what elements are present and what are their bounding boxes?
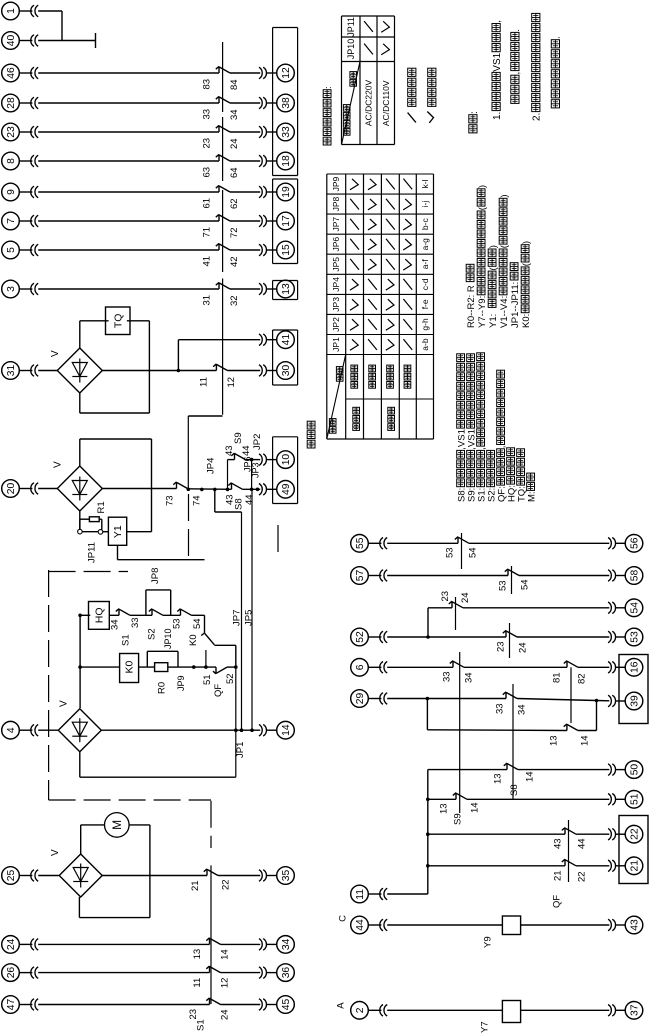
svg-text:R1: R1 (96, 501, 107, 513)
terminal 34 (277, 936, 295, 954)
svg-text:81: 81 (551, 672, 562, 683)
terminal 41 (277, 331, 295, 349)
svg-text:24: 24 (460, 592, 471, 603)
terminal 18 (277, 152, 295, 170)
terminal 9 (2, 183, 20, 201)
terminal 10 (277, 451, 295, 469)
wire (38, 972, 209, 974)
svg-text:11: 11 (192, 978, 203, 988)
svg-text:1.: 1. (492, 112, 503, 120)
svg-text:72: 72 (229, 227, 240, 238)
closing coil HQ (89, 602, 110, 630)
svg-text:JP3: JP3 (331, 297, 341, 312)
wire Y1 bottom (117, 545, 119, 559)
terminal 52 (351, 628, 369, 646)
svg-text:JP6: JP6 (331, 237, 341, 252)
svg-text:50: 50 (630, 764, 641, 776)
S1 switch contact 13/14 (209, 938, 211, 945)
svg-text:6: 6 (355, 664, 366, 670)
svg-text:JP10: JP10 (163, 628, 173, 649)
svg-text:C: C (337, 915, 348, 922)
terminal 37 (625, 1002, 643, 1020)
switch linkage (222, 117, 224, 181)
svg-text:S2: S2 (146, 628, 157, 640)
K0 anti-pumping relay contact 53/54 (180, 609, 182, 616)
terminal 43 (625, 916, 643, 934)
svg-text:35: 35 (281, 869, 292, 881)
terminal 25 (2, 867, 20, 885)
terminal 56 (625, 535, 643, 553)
terminal 17 (277, 212, 295, 230)
svg-text:23: 23 (6, 126, 17, 138)
wire (109, 614, 119, 616)
svg-text:36: 36 (281, 967, 292, 979)
wire (38, 160, 219, 162)
wire (387, 1009, 502, 1011)
svg-text:53: 53 (497, 580, 508, 591)
diagonal header divider (342, 62, 361, 145)
divider (346, 398, 434, 400)
switch linkage (568, 820, 570, 882)
svg-text:JP7: JP7 (331, 217, 341, 232)
svg-text:34: 34 (516, 704, 527, 715)
svg-text:JP8: JP8 (331, 196, 341, 211)
S1 switch contact 11/12 (209, 966, 211, 973)
wire (177, 340, 179, 371)
svg-text:23: 23 (188, 1009, 199, 1020)
svg-text:JP4: JP4 (205, 458, 216, 474)
svg-text:): ) (477, 185, 488, 188)
svg-text:8: 8 (6, 158, 17, 164)
wire (576, 833, 609, 835)
svg-text:17: 17 (281, 215, 292, 227)
terminal 39 (625, 692, 643, 710)
wire (102, 370, 178, 372)
svg-text:52: 52 (355, 631, 366, 643)
wire (517, 699, 597, 701)
svg-text:10: 10 (281, 454, 292, 466)
svg-text:15: 15 (281, 244, 292, 256)
svg-text:24: 24 (6, 938, 17, 950)
wire (38, 220, 219, 222)
terminal 2 (351, 1002, 369, 1020)
motor loop wire (80, 825, 82, 855)
svg-text:M:: M: (526, 491, 537, 502)
switch linkage wire (512, 684, 514, 800)
svg-text:Y1:: Y1: (488, 314, 499, 328)
terminal 22 (625, 825, 643, 843)
wire (227, 666, 236, 668)
wire (38, 40, 95, 42)
wire (243, 488, 261, 490)
legend: slash means open (408, 113, 416, 123)
bridge rectifier V (TQ) (57, 348, 102, 393)
svg-text:JP8: JP8 (150, 568, 161, 584)
QF aux switch contact 23/24 (218, 125, 220, 132)
svg-text:JP7: JP7 (231, 610, 242, 626)
wire (178, 666, 216, 668)
terminal 40 (2, 32, 20, 50)
svg-text:63: 63 (201, 167, 212, 178)
svg-text:21: 21 (190, 880, 201, 891)
svg-text:.: . (511, 29, 522, 32)
svg-text:4: 4 (6, 727, 17, 733)
S8 aux switch contact 43/44 (231, 483, 233, 490)
svg-text:40: 40 (6, 34, 17, 46)
svg-text:K0:: K0: (521, 314, 532, 328)
svg-text:13: 13 (281, 283, 292, 295)
svg-text:37: 37 (630, 1004, 641, 1016)
switch linkage (222, 190, 224, 272)
wire (387, 575, 508, 577)
svg-text:31: 31 (201, 295, 212, 306)
wire (38, 943, 209, 945)
terminal 13 (277, 280, 295, 298)
wire (521, 1009, 610, 1011)
svg-text:12: 12 (226, 377, 237, 388)
stub terminator (95, 33, 97, 48)
svg-text:74: 74 (191, 495, 202, 506)
svg-text:3: 3 (6, 286, 17, 292)
svg-text:23: 23 (495, 641, 506, 652)
wire (518, 769, 609, 771)
wire riser rectifier4 top to row A (79, 615, 81, 708)
wire (469, 542, 609, 544)
svg-text:24: 24 (517, 642, 528, 653)
wire (38, 191, 219, 193)
svg-text::: : (469, 111, 480, 114)
wire (519, 575, 609, 577)
wire branch to terminal 54 (427, 608, 429, 637)
svg-text:33: 33 (441, 671, 452, 682)
wire (139, 666, 155, 668)
S1 contact 23/24 (451, 601, 453, 608)
svg-text:43: 43 (552, 838, 563, 849)
svg-text:12: 12 (281, 67, 292, 79)
svg-text:.: . (551, 36, 562, 39)
QF aux switch contact 41/42 (218, 243, 220, 250)
wire (578, 666, 609, 668)
wire (38, 729, 58, 731)
svg-text:a-b: a-b (420, 338, 430, 351)
wire (192, 614, 205, 616)
svg-text:30: 30 (281, 364, 292, 376)
cell wubisuo (369, 382, 376, 389)
S1 energy-storage switch contact 33/34 (118, 609, 120, 616)
wire (163, 614, 181, 616)
wire (79, 511, 81, 529)
wire (38, 875, 59, 877)
QF aux switch contact 83/84 (218, 66, 220, 73)
svg-text:34: 34 (110, 619, 121, 630)
wire (227, 370, 260, 372)
svg-text:QF: QF (551, 895, 562, 908)
TQ loop wire (79, 321, 81, 348)
wire (38, 288, 219, 290)
QF aux switch contact 33/34 (218, 96, 220, 103)
svg-text:52: 52 (225, 673, 236, 684)
svg-text:,: , (476, 447, 487, 450)
svg-text:S8: S8 (509, 784, 520, 796)
terminal 7 (2, 212, 20, 230)
overcurrent release Y9 (502, 916, 520, 935)
terminal 19 (277, 183, 295, 201)
svg-text::: : (323, 86, 334, 89)
svg-text:43: 43 (224, 445, 235, 456)
terminal 30 (277, 362, 295, 380)
drop from row A to row B via contact (204, 615, 206, 633)
svg-text:V: V (50, 849, 61, 856)
terminal 15 (277, 241, 295, 259)
svg-text:14: 14 (281, 724, 292, 736)
svg-text:22: 22 (220, 879, 231, 890)
svg-text:k-l: k-l (420, 179, 430, 188)
svg-text:S9: S9 (452, 813, 463, 825)
wire (230, 102, 260, 104)
wire bottom loop (79, 752, 81, 778)
svg-text:TQ: TQ (112, 314, 124, 329)
svg-text:): ) (521, 241, 532, 244)
svg-text:45: 45 (281, 998, 292, 1010)
terminal 26 (2, 964, 20, 982)
terminal 20 (2, 480, 20, 498)
svg-text:1: 1 (6, 8, 17, 14)
svg-text:26: 26 (6, 967, 17, 979)
S8 contact 53/54 (457, 537, 459, 544)
switch linkage (210, 865, 212, 1004)
wire (38, 10, 62, 12)
svg-text:2: 2 (355, 1007, 366, 1013)
terminal 54 (625, 599, 643, 617)
wire (387, 893, 428, 895)
wire (101, 729, 260, 731)
wire (38, 131, 219, 133)
terminal 11 (351, 885, 369, 903)
legend: check means connected (427, 112, 433, 123)
QF aux switch contact 71/72 (218, 214, 220, 221)
terminal 31 (2, 362, 20, 380)
svg-text:JP1: JP1 (235, 742, 246, 758)
wire (102, 875, 207, 877)
S2 aux switch contact (151, 609, 153, 616)
S8 contact 13/14 (506, 763, 508, 770)
svg-text:61: 61 (201, 198, 212, 209)
terminal 1 (2, 2, 20, 20)
locking coil Y1 (103, 531, 109, 533)
terminal 29 (351, 690, 369, 708)
cell wufangtiao (388, 424, 395, 431)
wire (387, 542, 458, 544)
corner lianxian (336, 375, 343, 382)
svg-text:JP9: JP9 (176, 675, 186, 691)
wire (38, 488, 57, 490)
svg-text:34: 34 (229, 109, 240, 120)
svg-text:22: 22 (576, 871, 587, 882)
terminal 47 (2, 996, 20, 1014)
terminal 38 (277, 94, 295, 112)
jumper JP8 loop (145, 590, 147, 615)
terminal 49 (277, 481, 295, 499)
cell daibisuo (351, 382, 358, 389)
wire (38, 72, 219, 74)
svg-text:33: 33 (130, 617, 141, 628)
terminal 8 (2, 152, 20, 170)
table: jumper configuration (326, 174, 328, 439)
notes shuoming (469, 125, 477, 133)
terminal 5 (2, 241, 20, 259)
svg-text:JP1--JP11:: JP1--JP11: (510, 282, 521, 328)
svg-text:84: 84 (229, 79, 240, 90)
svg-text:73: 73 (164, 495, 175, 506)
svg-text:51: 51 (202, 674, 213, 685)
svg-text:62: 62 (229, 198, 240, 209)
note line 4 (551, 100, 559, 108)
svg-text:38: 38 (281, 97, 292, 109)
terminal 21 (625, 857, 643, 875)
svg-text:,: , (511, 72, 522, 75)
svg-text:V: V (58, 700, 69, 707)
svg-text:JP11: JP11 (346, 17, 356, 37)
wire (387, 636, 506, 638)
svg-text:Y7: Y7 (479, 1021, 490, 1033)
svg-text:23: 23 (440, 591, 451, 602)
terminal strip rails (272, 28, 274, 176)
svg-text:32: 32 (229, 295, 240, 306)
svg-text:57: 57 (355, 569, 366, 581)
svg-text:54: 54 (467, 547, 478, 558)
svg-text:33: 33 (281, 126, 292, 138)
resistor R1 (79, 519, 81, 529)
svg-text:c-d: c-d (420, 278, 430, 290)
terminal 36 (277, 964, 295, 982)
wire row 51 (426, 798, 430, 802)
S9 contact 53/54 (507, 569, 509, 576)
svg-text:23: 23 (201, 138, 212, 149)
JP11 link terminals (78, 529, 83, 534)
svg-text:71: 71 (201, 227, 212, 238)
QF aux contact 33/34 (452, 661, 454, 668)
cell daifangtiao (353, 424, 360, 431)
svg-text:53: 53 (171, 618, 182, 629)
wire row 22 (426, 832, 430, 836)
wire (517, 636, 609, 638)
QF aux contact 21/22 (564, 859, 566, 866)
svg-text:a-f: a-f (420, 259, 430, 270)
svg-text:24: 24 (219, 1009, 230, 1020)
svg-text:9: 9 (6, 189, 17, 195)
svg-text:JP2: JP2 (331, 317, 341, 332)
svg-text:,: , (492, 20, 503, 23)
switch linkage (222, 42, 224, 112)
svg-text:V: V (53, 461, 64, 468)
svg-text:11: 11 (355, 889, 366, 900)
QF aux switch contact 31/32 (218, 282, 220, 289)
Y1 loop wire (79, 439, 81, 466)
svg-text:55: 55 (355, 537, 366, 549)
svg-text:14: 14 (579, 735, 590, 746)
wire (38, 1004, 209, 1006)
svg-text:22: 22 (630, 828, 641, 840)
terminal 16 (625, 659, 643, 677)
svg-text:19: 19 (281, 186, 292, 198)
svg-text:33: 33 (494, 703, 505, 714)
wire (188, 488, 232, 491)
svg-text:AC/DC220V: AC/DC220V (364, 79, 374, 126)
QF aux switch contact 63/64 (218, 154, 220, 161)
svg-text:HQ: HQ (94, 607, 106, 623)
wire (230, 72, 260, 74)
S1 contact 73/74 (176, 482, 178, 489)
motor M (105, 813, 130, 838)
overcurrent release Y7 (502, 1001, 520, 1023)
wire (230, 288, 260, 290)
svg-text:34: 34 (463, 672, 474, 683)
terminal 12 (277, 64, 295, 82)
terminal 53 (625, 628, 643, 646)
jumper JP7 riser (214, 489, 216, 512)
svg-text:44: 44 (244, 494, 255, 505)
wire (102, 488, 176, 490)
svg-text:24: 24 (229, 138, 240, 149)
wire (387, 666, 453, 668)
wire (221, 1004, 261, 1006)
QF aux switch contact 61/62 (218, 185, 220, 192)
svg-text:54: 54 (519, 579, 530, 590)
terminal 23 (2, 123, 20, 141)
wire row B (79, 666, 81, 668)
svg-text:JP11: JP11 (87, 542, 98, 563)
svg-text:21: 21 (552, 870, 563, 881)
wire (218, 875, 260, 877)
wire (576, 865, 609, 867)
terminal 6 (351, 659, 369, 677)
wire (221, 972, 261, 974)
svg-text:46: 46 (6, 67, 17, 79)
wire (387, 698, 506, 700)
wire (246, 459, 261, 461)
bridge rectifier V (motor) (58, 709, 101, 752)
caption: wiring table (307, 440, 315, 448)
terminal 55 (351, 535, 369, 553)
svg-text:12: 12 (219, 978, 230, 989)
svg-text:20: 20 (6, 482, 17, 494)
terminal box 22/21 (619, 816, 648, 884)
table: operating power selection (341, 16, 343, 145)
header caozuodianyuan (343, 129, 350, 136)
svg-text:49: 49 (281, 483, 292, 495)
svg-text:M: M (110, 820, 124, 830)
svg-text:K0: K0 (188, 634, 199, 646)
resistor R0 (155, 663, 168, 672)
wire (464, 666, 567, 668)
svg-text:f-e: f-e (420, 299, 430, 309)
svg-text:,: , (496, 446, 507, 449)
TQ aux switch contact 11/12 (215, 364, 217, 371)
parallel branch S8 contact 13/14 (426, 699, 428, 730)
svg-text:42: 42 (229, 256, 240, 267)
svg-text:Y1: Y1 (112, 525, 124, 538)
svg-text:QF: QF (213, 684, 224, 697)
terminal 46 (2, 64, 20, 82)
closing coil circuit row A wire (80, 614, 90, 616)
header lianxian (350, 80, 357, 87)
svg-text:R0: R0 (156, 682, 167, 694)
terminal 4 (2, 721, 20, 739)
svg-text:82: 82 (576, 673, 587, 684)
svg-text:JP2: JP2 (252, 434, 263, 450)
svg-text:25: 25 (6, 869, 17, 881)
svg-text:JP10: JP10 (346, 39, 356, 60)
